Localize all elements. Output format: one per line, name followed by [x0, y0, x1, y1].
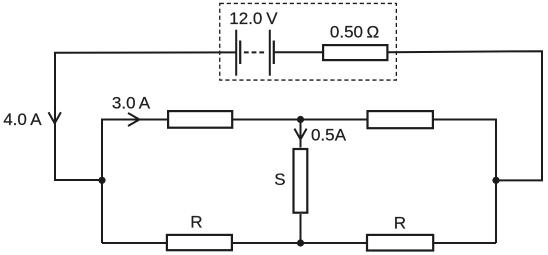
svg-text:R: R	[394, 213, 406, 232]
battery cell B1 short plate	[239, 41, 241, 65]
battery cell B2 long plate	[269, 30, 271, 76]
battery cell B2 short plate	[273, 41, 275, 65]
svg-text:3.0: 3.0	[112, 94, 136, 113]
svg-text:A: A	[139, 94, 151, 113]
resistor R bottom-right box	[367, 235, 433, 251]
wire middle-right + inner-right branch	[434, 120, 497, 244]
wire bottom-right segment	[434, 242, 497, 244]
node junction bottom of S	[297, 239, 304, 246]
wire bottom-middle segment	[233, 242, 367, 244]
wire dashed between cells	[244, 51, 267, 53]
resistor 0.50 ohm box	[323, 45, 387, 60]
svg-text:A: A	[30, 110, 42, 129]
arrow 3.0 A (right)	[128, 113, 139, 126]
svg-text:0.5: 0.5	[311, 125, 335, 144]
battery internal box (dashed)	[220, 3, 397, 80]
svg-text:V: V	[266, 9, 278, 28]
wire inner-left branch + middle wire start	[102, 120, 168, 244]
arrow 4.0 A (down)	[49, 112, 61, 123]
node junction top of S	[297, 116, 304, 123]
node junction left	[98, 177, 105, 184]
resistor R bottom-left box	[167, 235, 232, 250]
wire S bottom lead	[300, 214, 302, 243]
svg-text:S: S	[274, 170, 285, 189]
svg-text:Ω: Ω	[367, 23, 380, 42]
svg-text:A: A	[335, 125, 347, 144]
svg-text:4.0: 4.0	[3, 110, 27, 129]
arrow 0.5 A (down)	[294, 129, 306, 140]
wire top-right loop	[389, 51, 543, 180]
resistor S box	[294, 149, 308, 213]
node junction right	[492, 177, 499, 184]
svg-text:0.50: 0.50	[330, 22, 363, 41]
svg-text:R: R	[190, 213, 202, 232]
wire middle between boxes	[233, 119, 367, 121]
wire battery to internal resistor	[275, 51, 323, 53]
resistor middle-right box	[368, 111, 433, 128]
battery cell B1 long plate	[235, 30, 237, 76]
resistor middle-left box	[168, 111, 232, 128]
wire top-left loop	[55, 52, 236, 180]
wire S top lead	[300, 120, 302, 148]
wire bottom-left segment	[102, 242, 167, 244]
svg-text:12.0: 12.0	[229, 9, 262, 28]
